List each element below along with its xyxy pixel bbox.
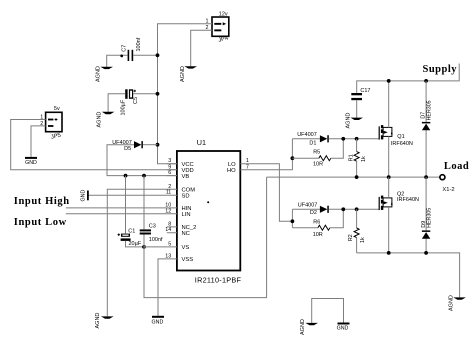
svg-text:HO: HO — [227, 168, 236, 174]
C7 value 100nf — [136, 37, 142, 51]
svg-text:HER305: HER305 — [427, 100, 433, 120]
wire D1 cathode to Q1 gate — [329, 138, 379, 140]
svg-text:1k: 1k — [360, 237, 366, 243]
svg-text:AGND: AGND — [96, 112, 102, 128]
D1 value UF4007 — [297, 132, 317, 138]
Q2 label — [397, 192, 404, 198]
junction dot HO riser at R5 — [291, 156, 295, 160]
svg-text:3: 3 — [168, 158, 171, 164]
svg-text:7: 7 — [246, 164, 249, 170]
svg-text:5: 5 — [168, 241, 171, 247]
connector JP5 — [46, 112, 62, 131]
junction dot VS node — [142, 245, 146, 249]
X1-2 label — [442, 187, 454, 193]
svg-text:14: 14 — [165, 227, 171, 233]
svg-text:Load: Load — [444, 161, 469, 172]
svg-text:LIN: LIN — [182, 212, 191, 218]
svg-text:D1: D1 — [309, 141, 316, 147]
Q1 label — [397, 134, 404, 140]
resistor R2 — [354, 209, 359, 253]
ground GND (bridge) — [337, 323, 350, 332]
svg-text:AGND: AGND — [95, 66, 101, 82]
D2 value UF4007 — [298, 202, 318, 208]
R2 value 1k — [360, 237, 366, 243]
junction dots Q2 gate wire — [341, 207, 358, 211]
svg-text:LO: LO — [228, 162, 236, 168]
R6 label — [313, 219, 320, 225]
U1 right pin numbers — [246, 158, 249, 170]
R2 label — [348, 234, 354, 241]
svg-text:UF4007: UF4007 — [297, 132, 317, 138]
wire SD to GND — [88, 194, 167, 196]
wire JP4 pin1 to 12v bus down to U1 VCC — [158, 24, 213, 164]
svg-text:10R: 10R — [313, 232, 323, 238]
JP4 pin numbers — [206, 19, 209, 32]
diode D5 UF4007 — [134, 141, 143, 148]
capacitor C17 — [351, 93, 362, 100]
svg-text:GND: GND — [152, 320, 164, 326]
ground bridge AGND to GND wire — [312, 299, 344, 323]
svg-text:VSS: VSS — [182, 257, 194, 263]
R1 label — [348, 154, 354, 161]
wire D2 cathode to Q2 gate — [329, 208, 379, 210]
svg-text:AGND: AGND — [95, 313, 101, 329]
D5 label — [124, 146, 131, 152]
wire D5 anode down to VB rail — [107, 145, 177, 176]
Q2 value IRF640N — [397, 197, 419, 203]
junction dots Q1 gate wire — [341, 137, 358, 141]
svg-text:JP5: JP5 — [50, 133, 61, 141]
C7 label — [121, 45, 127, 52]
wire JP4 pin2 to AGND — [191, 30, 212, 66]
capacitor C3 — [140, 229, 151, 234]
svg-text:X1-2: X1-2 — [442, 187, 454, 193]
ground AGND (C7) — [95, 66, 113, 82]
U1 left pin stubs — [167, 164, 177, 259]
wire JP5 pin1 5v rail to U1 VDD — [11, 120, 177, 170]
svg-text:12v: 12v — [219, 11, 228, 17]
wire VS route around IC to phase node — [144, 177, 267, 298]
D7 label — [421, 112, 427, 119]
ground AGND (C17) — [346, 113, 363, 129]
node Supply label — [423, 64, 458, 75]
wire phase node to load pad — [267, 176, 440, 178]
D7 value HER305 — [427, 100, 433, 120]
svg-text:GND: GND — [81, 190, 87, 202]
svg-text:UF4007: UF4007 — [298, 202, 318, 208]
wire VB rail junction dots — [124, 174, 146, 178]
U1 label — [197, 138, 206, 147]
wire D9 column — [425, 177, 427, 253]
D9 label — [421, 221, 427, 228]
wire VSS to GND — [158, 259, 167, 316]
svg-text:Input High: Input High — [14, 196, 70, 207]
wire VS pin to node — [144, 246, 167, 248]
svg-text:C7: C7 — [121, 45, 127, 52]
wire D2 anode vertical from LO — [291, 209, 293, 227]
D5 value UF4007 — [112, 140, 132, 146]
svg-text:VB: VB — [182, 174, 190, 180]
svg-text:SD: SD — [182, 193, 190, 199]
C1 value 20uF — [129, 241, 142, 247]
wire COM to AGND — [107, 189, 167, 316]
wire C5 right to bus — [133, 93, 157, 95]
diode D7 HER305 — [422, 122, 430, 130]
diode D2 UF4007 — [320, 206, 329, 213]
R6 value 10R — [313, 232, 323, 238]
U1 right pin names — [227, 162, 236, 174]
svg-text:1k: 1k — [361, 156, 367, 162]
C5 label — [133, 97, 139, 104]
ground AGND (JP4) — [180, 66, 197, 82]
svg-text:IRF640N: IRF640N — [391, 141, 413, 147]
C3 value 100nf — [149, 237, 163, 243]
junction dot LO at gate network — [291, 219, 295, 223]
svg-text:C1: C1 — [128, 228, 135, 234]
svg-text:100nf: 100nf — [149, 237, 163, 243]
wire LIN input — [66, 213, 167, 215]
diode D9 HER305 — [422, 230, 430, 238]
ground GND (SD) — [81, 190, 89, 202]
ground GND (VSS) — [152, 316, 164, 326]
D2 label — [310, 210, 317, 216]
C1 label — [128, 228, 135, 234]
node Input High label — [14, 196, 70, 207]
svg-text:R6: R6 — [313, 219, 320, 225]
capacitor C7 — [128, 50, 134, 61]
pad X1-2 — [440, 175, 445, 180]
U1 right pin stubs — [240, 164, 250, 170]
wire HO to high-side gate network — [250, 139, 292, 170]
svg-text:GND: GND — [25, 160, 37, 166]
wire C1 bottom to VS node — [126, 241, 145, 247]
ground AGND (C5) — [96, 112, 114, 128]
wire JP5 pin2 to GND — [31, 126, 46, 157]
JP5 value 5v — [54, 106, 60, 112]
svg-text:D5: D5 — [124, 146, 131, 152]
transistor Q2 IRF640N — [379, 196, 393, 211]
svg-text:Input Low: Input Low — [14, 217, 67, 228]
JP5 label — [50, 133, 61, 141]
JP4 value 12v — [219, 11, 228, 17]
ground AGND (COM) — [95, 313, 114, 329]
resistor R1 — [354, 139, 359, 177]
wire C17 bottom to AGND — [356, 100, 358, 117]
svg-text:10R: 10R — [313, 161, 323, 167]
svg-text:AGND: AGND — [300, 319, 306, 335]
svg-text:AGND: AGND — [346, 113, 352, 129]
junction dots 12v bus — [156, 53, 160, 146]
U1 value IR2110-1PBF — [195, 276, 242, 285]
svg-text:Supply: Supply — [423, 64, 458, 75]
U1 left pin names — [182, 162, 197, 263]
C3 label — [149, 224, 156, 230]
wire C5 left to AGND — [108, 94, 125, 112]
capacitor C5 polarized — [125, 89, 136, 99]
wire Q1 source to phase node — [388, 136, 390, 177]
svg-text:6: 6 — [168, 170, 171, 176]
svg-text:R2: R2 — [348, 234, 354, 241]
wire C3 top column — [143, 176, 145, 230]
wire Q2 drain to phase node — [388, 177, 390, 198]
wire D7 column — [425, 81, 427, 177]
wire C7 right to bus — [133, 54, 157, 56]
C17 label — [360, 88, 370, 94]
wire D5 cathode to bus — [143, 144, 158, 146]
svg-text:R1: R1 — [348, 154, 354, 161]
capacitor C1 polarized — [118, 233, 131, 241]
node Input Low label — [14, 217, 67, 228]
R5 value 10R — [313, 161, 323, 167]
svg-text:100µF: 100µF — [120, 99, 126, 115]
ground GND (JP5) — [25, 157, 37, 166]
JP5 pin numbers — [40, 114, 43, 127]
junction dots ground line — [387, 251, 428, 255]
svg-text:U1: U1 — [197, 138, 206, 147]
ground AGND (power return) — [448, 295, 466, 311]
wire HIN input — [66, 207, 167, 209]
svg-text:C3: C3 — [149, 224, 156, 230]
wire LO to low-side gate network — [250, 164, 292, 222]
svg-text:GND: GND — [337, 326, 349, 332]
svg-text:1: 1 — [246, 158, 249, 164]
op-amp/IC U1 IR2110-1PBF — [177, 151, 240, 271]
svg-text:VCC: VCC — [182, 162, 194, 168]
svg-text:AGND: AGND — [448, 295, 454, 311]
wire low-side ground line to AGND — [357, 253, 460, 298]
svg-text:100nf: 100nf — [136, 37, 142, 51]
svg-text:5v: 5v — [54, 106, 60, 112]
svg-text:IRF640N: IRF640N — [397, 197, 419, 203]
D9 value HER305 — [427, 208, 433, 228]
C5 value 100uF — [120, 99, 126, 115]
svg-text:D2: D2 — [310, 210, 317, 216]
svg-text:20µF: 20µF — [129, 241, 142, 247]
transistor Q1 IRF640N — [379, 125, 393, 140]
JP4 label — [218, 35, 230, 43]
junction dot C7 wire — [120, 55, 123, 58]
resistor R5 — [292, 139, 343, 161]
D1 label — [309, 141, 316, 147]
wire Q2 source to ground line — [388, 207, 390, 253]
wire Q1 drain to supply — [388, 81, 390, 128]
connector JP4 — [212, 17, 229, 36]
wire D1 anode — [292, 138, 320, 140]
resistor R6 — [292, 209, 343, 230]
svg-text:C5: C5 — [133, 97, 139, 104]
R1 value 1k — [361, 156, 367, 162]
wire C7 left to AGND — [107, 55, 128, 66]
svg-text:R5: R5 — [313, 150, 320, 156]
ground AGND (bridge) — [300, 319, 318, 335]
Q1 value IRF640N — [391, 141, 413, 147]
diode D1 UF4007 — [320, 135, 329, 142]
wire D2 anode — [292, 208, 320, 210]
svg-text:HER305: HER305 — [427, 208, 433, 228]
U1 left pin numbers — [165, 158, 171, 259]
node Load label — [444, 161, 469, 172]
junction dots phase node — [355, 175, 428, 179]
svg-text:VS: VS — [182, 245, 190, 251]
wire C1 top column — [125, 176, 127, 234]
svg-text:AGND: AGND — [180, 66, 186, 82]
svg-text:C17: C17 — [360, 88, 370, 94]
svg-text:Q1: Q1 — [397, 134, 404, 140]
R5 label — [313, 150, 320, 156]
svg-text:NC: NC — [182, 231, 190, 237]
wire supply rail — [357, 64, 460, 94]
junction dots supply rail — [387, 79, 428, 83]
svg-text:IR2110-1PBF: IR2110-1PBF — [195, 276, 242, 285]
